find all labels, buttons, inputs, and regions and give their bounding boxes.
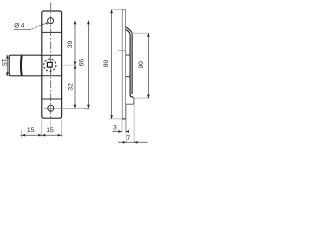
label D4 underline: [14, 29, 31, 31]
svg-text:3: 3: [113, 124, 117, 131]
spindle circle dashed: [44, 59, 56, 71]
node centerline: [50, 3, 52, 119]
side foot bottom: [126, 103, 134, 105]
hole H1 top: [48, 18, 54, 24]
svg-text:39: 39: [67, 40, 74, 48]
dim 3 line: [112, 131, 128, 133]
wire screw crosshair and ext: [44, 107, 90, 109]
svg-text:32: 32: [67, 83, 74, 91]
side box ticks: [126, 55, 130, 77]
svg-text:90: 90: [138, 61, 145, 69]
box bottom line across plate: [42, 75, 62, 77]
bottom ext lines: [22, 120, 62, 138]
dim 15 box height line: [6, 55, 8, 76]
dim 7 ext lines: [126, 105, 134, 143]
side foot right edge: [132, 97, 135, 104]
dim line 80: [111, 10, 113, 119]
svg-text:15: 15: [0, 59, 7, 67]
spindle square: [47, 62, 52, 67]
dim 3 ext lines: [122, 120, 125, 133]
foot crease line: [42, 98, 62, 100]
svg-text:80: 80: [103, 60, 110, 68]
wire ext 66 bottom: [85, 108, 90, 110]
latch arc: [20, 56, 23, 76]
dim line B 66: [87, 21, 89, 109]
dim line A 39/32: [74, 21, 76, 109]
dim line 90: [147, 33, 149, 98]
box top line across plate: [42, 54, 62, 56]
side tick y50.6: [119, 50, 127, 52]
label D4 leader: [32, 23, 46, 29]
side band inner line: [130, 37, 133, 97]
screw hole H2: [48, 105, 54, 111]
wire ext 90 top: [132, 32, 150, 34]
side strip bottom cap: [122, 118, 126, 120]
side strip: [122, 9, 125, 119]
wire spindle ext right: [62, 64, 76, 66]
wire ext side-top: [111, 9, 122, 11]
side band outer line: [131, 37, 133, 94]
dim 7 line: [118, 141, 148, 143]
svg-text:Ø 4: Ø 4: [14, 22, 25, 29]
wire ext side-bottom: [109, 118, 122, 120]
wire centerline ext below: [50, 120, 52, 134]
box B1: [9, 55, 42, 76]
plate outline: [42, 11, 62, 118]
svg-text:15: 15: [27, 127, 35, 134]
svg-text:66: 66: [79, 59, 86, 67]
side jog outer: [126, 27, 133, 37]
dim line 15/15: [20, 134, 62, 136]
svg-text:7: 7: [127, 135, 131, 142]
side jog inner: [126, 29, 131, 37]
bend line: [42, 31, 62, 33]
wire ext 90 bottom: [134, 97, 150, 99]
svg-text:15: 15: [46, 127, 54, 134]
